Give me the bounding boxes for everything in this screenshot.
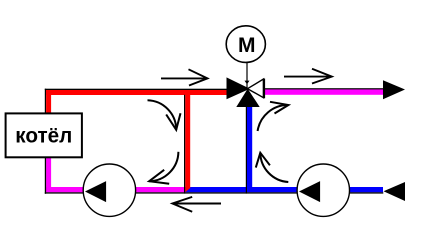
arrow: curved flow from return into riser (lower right) <box>256 153 288 182</box>
pump P1 (boiler circuit) <box>83 164 135 216</box>
wire: blue riser outline left <box>246 103 247 194</box>
wire: magenta return riser from boiler bottom <box>46 158 51 189</box>
actuator M circle <box>226 26 265 63</box>
wire: return riser outline left of boiler <box>45 158 46 194</box>
valve V1 right port base bar <box>263 79 265 99</box>
wire: bottom return pipe blue segment <box>185 187 383 192</box>
arrow: flow right above magenta pipe <box>284 69 332 84</box>
arrow: curved flow into bypass (top) <box>148 100 181 130</box>
arrow: flow left below return pipe <box>172 197 221 212</box>
wire: supply pipe riser outline left of boiler <box>45 89 46 113</box>
wire: red bypass pipe vertical <box>185 95 190 188</box>
arrow: flow right above supply pipe <box>161 69 208 85</box>
wire: blue riser from return to valve <box>247 103 252 187</box>
wire: actuator stem line to valve <box>246 63 248 88</box>
wire: bottom return pipe bottom outline <box>45 192 384 193</box>
arrow: curved flow out of bypass (bottom) <box>149 152 178 184</box>
svg-text:M: M <box>238 34 256 57</box>
node: up arrowhead on blue riser into valve <box>236 89 259 107</box>
node: small arrowhead on actuator stem <box>245 81 250 85</box>
wire: magenta mixed-output pipe (valve to system) <box>265 89 384 94</box>
wire: supply pipe top outline (black) <box>45 89 228 90</box>
arrow: curved flow from riser into magenta (upper right of valve) <box>258 102 289 131</box>
valve V1 left port (black triangle) <box>228 79 248 98</box>
wire: bottom return pipe magenta segment (boiler return) <box>45 187 185 192</box>
pump P2 (system circuit) <box>297 164 349 216</box>
svg-text:котёл: котёл <box>15 123 72 147</box>
boiler box котёл <box>6 113 82 157</box>
wire: magenta mixed-output pipe top outline <box>265 88 384 89</box>
valve V1 right port (open triangle) <box>248 79 264 98</box>
node: return arrowhead at right end of blue pipe <box>384 182 406 201</box>
node: flow arrowhead to system (right end of magenta pipe) <box>383 80 405 99</box>
wire: bypass pipe outline left <box>184 95 185 194</box>
wire: red supply pipe horizontal (boiler to valve) <box>46 90 227 95</box>
wire: red bypass joins return (diagonal junction) <box>185 187 190 192</box>
wire: red supply riser into boiler top <box>46 90 51 113</box>
